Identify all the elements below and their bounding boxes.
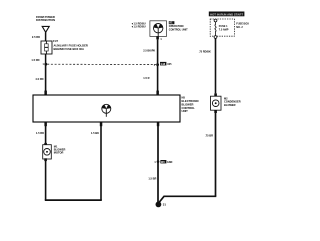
- svg-text:1.5 RD: 1.5 RD: [36, 131, 44, 135]
- svg-text:G18: G18: [161, 63, 166, 66]
- svg-text:1.5 BR: 1.5 BR: [148, 177, 156, 181]
- pin tab N5 bottom left: [44, 122, 47, 126]
- svg-text:F1/7: F1/7: [53, 40, 59, 43]
- pin tab N5 top middle: [156, 91, 159, 95]
- fuse box label: [236, 23, 249, 29]
- svg-text:ELECTRONIC: ELECTRONIC: [182, 99, 200, 103]
- splice reference label: [160, 160, 172, 164]
- wire: fuse to junction: [45, 54, 47, 64]
- svg-text:HOT IN RUN AND START: HOT IN RUN AND START: [210, 12, 243, 16]
- connector arrows to A/C control unit: [131, 22, 146, 28]
- svg-text:NO. 2: NO. 2: [236, 26, 243, 29]
- svg-text:1.5 RD: 1.5 RD: [31, 58, 39, 62]
- wire: bottom horizontal run: [45, 199, 102, 201]
- blower motor symbol inside N5: [102, 104, 111, 117]
- svg-text:◄1.5 RD/BU: ◄1.5 RD/BU: [131, 26, 146, 29]
- pin tab into N5: [44, 91, 47, 95]
- wire: triangle to fuse F1: [45, 32, 47, 41]
- svg-text:2.5 BK/PK: 2.5 BK/PK: [143, 49, 155, 52]
- pin tab N5 bottom middle: [100, 122, 103, 126]
- svg-text:N5: N5: [182, 96, 186, 100]
- svg-text:.75 RD/BK: .75 RD/BK: [199, 50, 211, 53]
- node: FROM POWER DISTRIBUTION label: [36, 15, 55, 22]
- wire: bottom run to ground: [159, 196, 217, 203]
- label M1 BLOWER MOTOR: [54, 144, 66, 154]
- junction (splice) on left wire: [44, 63, 47, 66]
- svg-text:31: 31: [163, 203, 167, 207]
- svg-text:MOTOR: MOTOR: [54, 151, 64, 155]
- ground splice junction: [157, 160, 160, 163]
- junction with dashed wire: [156, 63, 159, 66]
- pin tab N5 bottom right: [157, 122, 160, 126]
- svg-text:.75 BR: .75 BR: [205, 134, 213, 138]
- fuse box (dashed) with fuse 7.5A: [210, 19, 234, 38]
- header HOT IN RUN AND START: [209, 12, 245, 17]
- ground node 31: [156, 202, 162, 208]
- label M2 CONDENSER BLOWER: [224, 96, 241, 106]
- wire: fuse box to condenser motor M2: [215, 38, 217, 93]
- svg-text:CONTROL UNIT: CONTROL UNIT: [169, 28, 188, 31]
- svg-text:GND: GND: [167, 161, 173, 164]
- svg-text:AUXILIARY FUSE HOLDER: AUXILIARY FUSE HOLDER: [54, 44, 88, 48]
- condenser blower motor M2: [211, 93, 222, 113]
- power feed arrow (triangle): [42, 26, 49, 32]
- blower motor M1: [43, 143, 52, 161]
- wire: M2 down: [215, 113, 217, 196]
- wire: junction down to blower control unit N5: [45, 64, 47, 95]
- fuse F1: [41, 41, 52, 54]
- module N5 electronic blower control unit (big box): [33, 95, 180, 122]
- wire: M1 down to bottom run: [45, 160, 47, 200]
- svg-text:4.0 RD: 4.0 RD: [35, 77, 43, 81]
- svg-text:1.5 R: 1.5 R: [143, 76, 149, 80]
- svg-text:BLOWER: BLOWER: [224, 103, 236, 107]
- svg-text:CONTROL: CONTROL: [182, 106, 196, 110]
- dashed wire to A/C control unit wire: [47, 63, 156, 65]
- wire: right side of motor loop up to N5: [100, 122, 102, 200]
- svg-text:7.5 AMP: 7.5 AMP: [219, 28, 229, 31]
- A/C operation control unit A1: [150, 21, 167, 40]
- wire: N5 to blower motor M1: [45, 122, 47, 145]
- splice reference label: [160, 62, 172, 66]
- wire: N5 down to ground: [157, 122, 159, 203]
- svg-text:BEHIND FUSE BOX 30A: BEHIND FUSE BOX 30A: [54, 47, 85, 51]
- svg-text:2.5 RD: 2.5 RD: [32, 35, 40, 39]
- svg-text:UNIT: UNIT: [182, 109, 189, 113]
- fuse description label: [54, 44, 88, 51]
- svg-text:1.5 BK: 1.5 BK: [91, 131, 99, 135]
- svg-text:DISTRIBUTION: DISTRIBUTION: [36, 18, 55, 22]
- svg-text:X35: X35: [167, 63, 172, 66]
- label N5 ELECTRONIC BLOWER CONTROL UNIT: [182, 96, 200, 114]
- label A1 OPERATION CONTROL UNIT: [169, 21, 188, 31]
- svg-text:BLOWER: BLOWER: [182, 102, 194, 106]
- wire: A1 down to N5: [157, 39, 159, 95]
